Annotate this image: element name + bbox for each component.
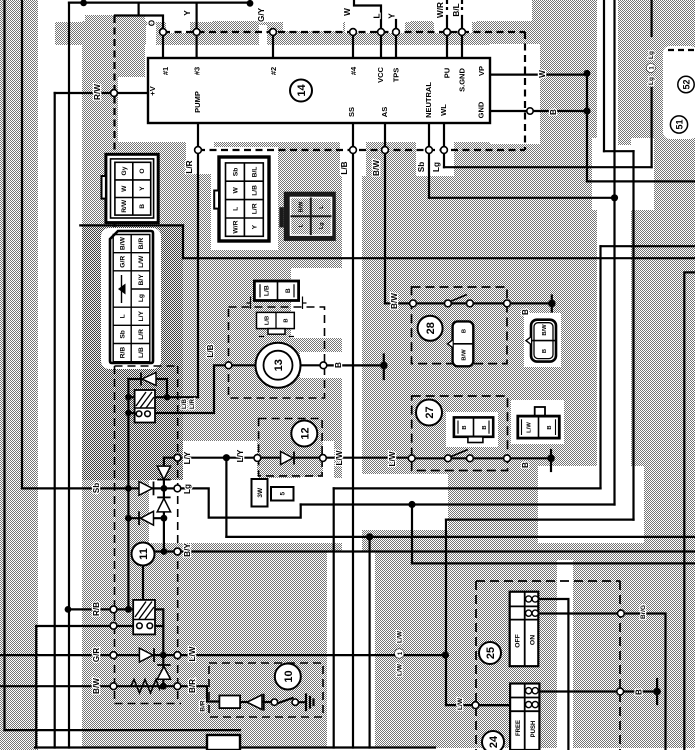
switch 27 circles [408,455,415,462]
svg-text:VP: VP [477,66,486,76]
svg-text:R/B: R/B [92,602,101,616]
svg-text:L: L [233,207,240,211]
wire comp13 B lead [327,364,384,366]
junction G/R row [160,652,167,659]
svg-text:L/W: L/W [388,451,397,466]
wire switch27 row [413,457,507,459]
wire diamond tick 27 [550,450,552,471]
svg-text:L/W: L/W [397,630,404,643]
wire switch28 B lead [507,302,552,304]
node B end comp13 [380,362,388,370]
wire dashed stub near 52 [668,49,695,51]
ECU box 14 [148,58,490,123]
junction Sb row center [161,485,168,492]
svg-text:Lg: Lg [648,77,655,85]
wire left vertical 2 [21,0,23,488]
labels: 4cell faint [299,201,326,229]
svg-text:O: O [148,19,157,26]
wire y518 diode row [128,517,164,519]
white diode cluster zone [149,441,259,543]
svg-text:14: 14 [296,84,308,97]
svg-text:B/W: B/W [92,678,101,694]
switch 28 arm [449,295,467,303]
junction top bus left [80,0,87,6]
balloon 52 [678,76,694,92]
white right of box 14 [490,44,540,144]
wire x412 vertical [411,505,413,564]
svg-text:L/W: L/W [457,697,464,710]
wire GND B horizontal [490,110,587,112]
svg-text:Sb: Sb [417,162,426,172]
svg-text:L/B: L/B [138,347,145,358]
wire y537 horizontal to right edge [226,536,695,538]
resistor box comp10 [219,696,240,709]
svg-text:#1: #1 [161,67,170,75]
svg-text:R/W: R/W [93,84,102,100]
wire Sb feed horizontal [22,487,164,489]
wire G/R row [0,654,174,656]
connector G (inside 27) [454,417,493,442]
svg-text:OFF: OFF [515,634,522,648]
wire Lg riser to label [650,88,652,167]
comp10 contact circles [271,699,277,705]
wire diamond tick 28 [551,296,553,312]
wire dashed R/W vertical x114.5 [113,16,115,227]
svg-text:TPS: TPS [392,68,401,83]
svg-text:B/W: B/W [542,324,548,336]
junction diode row left [125,515,132,522]
wire R/B row [68,608,134,610]
svg-text:12: 12 [299,427,311,439]
wire y519 horizontal [446,518,634,520]
wire relay1 row y397 [128,396,167,398]
svg-text:Lg: Lg [183,484,192,494]
wire pin stub #3 riser [196,3,198,58]
wire relay2 right link [155,609,163,686]
wire jog y151 [604,150,634,152]
svg-text:B: B [462,425,468,429]
white right channel [597,0,631,525]
wire L/R into relay [167,396,198,398]
svg-text:NEUTRAL: NEUTRAL [424,82,433,118]
svg-text:L/W: L/W [188,646,197,661]
labels: balloon numbers [138,79,691,748]
svg-text:L/Y: L/Y [183,451,192,464]
svg-text:L: L [120,314,127,318]
wire VP W horizontal [490,73,587,75]
switch 28 circles [410,300,417,307]
white box 51/52 [663,46,695,139]
junction Lg net x412 [408,501,415,508]
terminal circle B on GND wire [527,108,533,114]
wire B diamond tick [383,355,385,380]
wire comp13 internal [232,364,320,366]
resistor zigzag B/W row [131,680,161,693]
balloon 27 [416,400,442,426]
svg-text:#4: #4 [349,66,358,75]
balloon 24 [482,731,504,750]
component 11 dashed box [115,366,182,704]
svg-text:L/B: L/B [340,161,349,174]
balloon 14 [290,80,312,102]
wire central diode column [163,458,165,552]
wire right bus x633 [632,151,634,519]
svg-text:PU: PU [443,68,452,78]
svg-text:#3: #3 [193,67,202,75]
wire pin stub #2 [272,32,274,58]
wire harness corner vertical [182,225,184,258]
junction relay1 right [164,394,170,400]
svg-text:L/W: L/W [138,255,145,268]
svg-text:10: 10 [283,670,295,682]
svg-text:Y: Y [251,224,258,229]
svg-text:B/R: B/R [200,700,207,712]
wire harness horizontal upper [80,224,183,226]
buzzer triangle comp10 [247,694,264,711]
svg-text:GND: GND [477,101,486,118]
svg-text:L/B: L/B [206,344,215,357]
connector 6-cell outer [102,154,159,222]
svg-text:5: 5 [280,492,287,496]
labels: connector cells [120,166,554,433]
lamp spec box 3W [252,479,268,507]
white rounded margin around tall connector [101,228,161,369]
svg-text:B: B [284,318,290,322]
wire comp25 ON to Br/G [538,612,617,614]
svg-text:Y: Y [183,10,192,16]
junction top bus right [247,0,254,7]
svg-text:B/Y: B/Y [183,543,192,557]
junction VP W wire [584,70,591,77]
svg-text:Sb: Sb [120,330,127,339]
svg-text:L/W: L/W [397,663,404,676]
wire x333 vertical to bottom [333,488,335,747]
svg-text:B/Y: B/Y [138,274,145,286]
terminal circles on dashed harness top [110,29,624,709]
wire y488 horizontal east [334,487,601,489]
svg-text:Sb: Sb [92,483,101,493]
svg-text:L/B: L/B [181,398,188,408]
relay2 contact circles [137,623,143,629]
svg-text:WL: WL [439,104,448,116]
wire dashed stub above W/R [446,0,448,10]
white margin bottom page edge [38,748,695,750]
diode pair central column [157,466,170,512]
component 28 dashed box [412,287,508,364]
svg-text:+V: +V [148,86,157,95]
diode comp12 [281,452,294,465]
wire B/W row [0,685,174,687]
wire L/Y row comp12 [164,457,412,459]
terminal circles comp12 [254,455,261,462]
wire Lg net horizontal y504 [301,503,615,505]
svg-text:B: B [521,462,530,468]
svg-text:PUSH: PUSH [531,721,537,738]
svg-text:#2: #2 [269,67,278,75]
wire L/Y drop x226 [225,458,227,537]
junction B/W row [160,683,167,690]
svg-text:W: W [121,185,128,192]
white pocket around B-wire [300,352,342,378]
wire long mid horizontal y258 [183,257,695,259]
wire dashed harness y150 [198,149,525,151]
svg-text:L/B: L/B [264,285,271,296]
wire PUMP L/R vertical [197,123,199,397]
white channel comp25 wire [557,560,573,750]
svg-text:L/R: L/R [138,329,145,340]
lamp spec box 5 [271,487,294,501]
svg-text:B: B [521,309,530,315]
svg-text:L/R: L/R [251,203,258,214]
svg-text:W: W [233,187,240,194]
balloon 25 [479,642,501,664]
junction Sb row left bus [125,485,132,492]
svg-text:B: B [547,425,553,429]
wire bottom collector y747 [35,746,435,748]
balloon 28 [418,316,443,341]
terminal circles on dashed harness y150 [195,147,202,154]
balloon 12 [291,421,317,447]
diode D3 on y518 row pointing left [139,511,154,525]
svg-text:B: B [334,362,343,368]
svg-text:R/B: R/B [120,347,127,359]
wire pin stub #4 [352,32,354,58]
wire B/W to switch 28 [385,302,412,304]
relay 1 coil box [135,390,155,423]
wire stub horizontal y246 [601,245,695,247]
diode D2 on Sb row [139,482,154,496]
svg-text:B: B [462,329,468,333]
svg-text:B: B [139,204,146,209]
wire Lg short link [164,487,174,489]
svg-text:27: 27 [424,406,436,418]
terminal circles comp11 right edge [174,454,181,461]
wire ground bars comp10 [306,695,314,711]
wire NEUTRAL Sb vertical [428,123,430,198]
wire right bus x614 page top to Lg line [613,0,615,505]
svg-text:Gy: Gy [121,166,128,175]
labels: ECU pin names [148,66,486,118]
white L/B wire channel [342,152,362,552]
svg-text:3W: 3W [257,487,264,498]
white around box 14 [118,44,538,142]
wire y563 horizontal to right edge [412,562,695,564]
wire comp24 B row [539,690,657,692]
svg-text:G/R: G/R [92,648,101,663]
diode D4 on G/R row [139,648,154,662]
svg-text:B/W: B/W [462,349,468,361]
svg-text:B/W: B/W [372,160,381,176]
svg-text:B/R: B/R [188,679,197,693]
white channel left [38,0,82,750]
wire AS B/W vertical [384,123,386,303]
junction GND B wire [583,107,590,114]
component 13 dashed box [229,307,325,398]
wire pin stub S.GND [461,16,463,58]
white pockets on dashed y150 line [186,142,214,174]
svg-text:R/W: R/W [121,199,128,213]
connector 4-cell black block [279,192,335,241]
svg-text:Y: Y [388,13,397,19]
comp24/25 edge circles [618,610,625,617]
relay 2 coil box [133,600,155,635]
wire R/W drop vertical [54,93,56,748]
dark texture block around tall connector [82,226,183,480]
component 10 dashed box [209,663,323,717]
balloon 10 [275,664,301,690]
wire corner right edge x684 [684,272,695,750]
wire WL Lg vertical [443,123,445,167]
wire pin stub TPS [395,20,397,58]
wire comp10 internals [240,701,305,703]
node B end comp24 [653,688,661,696]
svg-text:W/R: W/R [436,2,445,18]
svg-text:11: 11 [138,548,150,560]
wire x369 vertical to bottom [369,537,371,748]
white right corners zone [592,138,654,210]
texture block top-left re-add [85,15,145,77]
white label pockets on top dashed run [146,21,212,46]
svg-text:VCC: VCC [376,67,385,83]
terminal circles comp13 [225,362,232,369]
diode D5 vertical between rows [157,665,170,679]
junction relay1 left top [125,394,131,400]
texture comp12 interior [257,417,323,477]
white channel bottom-mid verticals [327,552,375,750]
wire dashed stub above B/L [461,0,463,10]
wire VP B tick [586,103,588,119]
wire W/B junction vertical [586,73,588,181]
svg-text:28: 28 [425,322,437,334]
labels: wire color codes [92,2,655,712]
wire relay2 contact row horizontal [36,625,163,627]
wire Lg horizontal [444,166,652,168]
wire W pin jog from page top [354,0,381,58]
svg-text:ON: ON [530,635,537,645]
connector H (right of 27) [518,407,560,438]
svg-text:G/Y: G/Y [257,7,266,22]
wire comp11 left bus [127,379,129,609]
bottom partial box [207,735,240,750]
svg-text:W: W [538,70,547,78]
white margins around 28/27 connectors [524,313,561,367]
connector E rounded (inside 28) [448,321,474,366]
svg-text:B: B [549,109,558,115]
svg-text:L/W: L/W [335,450,344,465]
svg-text:B/R: B/R [138,238,145,250]
switch table 24 [510,684,539,750]
wire switch10 arm [277,698,293,704]
svg-text:Lg: Lg [138,294,145,302]
wire B/Y long horizontal [154,550,695,552]
wire x568 comp25 drop [538,599,568,750]
component 24/25 dashed box [476,581,620,750]
white top margin [38,0,532,21]
relay1 contact circles [136,411,142,417]
connector tall 13-pin [110,231,153,363]
svg-text:FREE: FREE [516,720,522,736]
wire SS L/B long vertical [352,123,354,748]
svg-text:O: O [139,168,146,173]
wire left page-edge vertical [3,0,5,730]
svg-text:L/Y: L/Y [138,311,145,322]
junction L/W net comp24 [442,652,449,659]
labels: switch position tables [515,634,538,737]
node B end switch27 [547,455,555,463]
wire B/R lead into comp10 [181,686,219,701]
wire dashed corner x525 [524,32,526,150]
svg-text:SS: SS [347,107,356,117]
wire right bus from page top x604 [603,0,605,151]
svg-text:Sb: Sb [233,168,240,177]
wire pin stub PU [446,16,448,58]
svg-text:PUMP: PUMP [193,91,202,113]
svg-text:Lg: Lg [432,162,441,172]
junction diode row center [161,515,168,522]
junction Sb bus [611,194,618,201]
svg-text:25: 25 [485,647,497,659]
switch 27 arm [450,450,468,458]
switch table 25 [510,592,539,667]
svg-text:B/W: B/W [120,236,127,250]
svg-text:AS: AS [380,107,389,117]
component 13 sensor double circle [256,343,301,388]
wire top jog to O connector [115,3,163,58]
wire stub vertical x600 [599,246,601,488]
wire to comp24 L/W circle [446,704,510,706]
mating marks comp13 connectors [247,297,307,310]
svg-text:B: B [542,349,548,353]
svg-text:B/W: B/W [299,201,305,213]
svg-text:L/B: L/B [251,185,258,196]
terminal circles comp11 left edge [110,606,117,613]
svg-text:L/R: L/R [185,160,194,173]
svg-text:L/W: L/W [527,422,533,433]
svg-text:24: 24 [488,735,500,748]
wire Sb horizontal to bus [429,197,615,199]
svg-text:L/B: L/B [265,316,271,325]
wire B diamond tick comp24 [656,679,658,704]
connector pair above comp13 upper [254,281,298,301]
svg-text:52: 52 [681,79,691,89]
component 27 dashed box [412,396,508,471]
svg-text:S.GND: S.GND [458,68,467,92]
junction y537 net [366,533,373,540]
balloon 11 [132,543,155,566]
wire Lg net jog [177,488,300,517]
wire left vertical 3 [68,3,70,748]
connector 8-pin outer [214,157,269,241]
wire main dashed harness top y32 [163,31,525,33]
svg-text:Lg: Lg [648,51,655,59]
texture band along top dashed wire [55,22,490,45]
svg-text:Lg: Lg [319,222,325,229]
wire comp24 L/W entry [479,704,510,706]
wire switch28 row [413,302,507,304]
svg-text:B: B [635,689,644,695]
connector F rounded (right of 28) [526,320,556,362]
svg-text:L/R: L/R [189,398,196,408]
wire R/W horizontal [55,92,148,94]
wire relay1 contact row y413 to comp13 [128,365,225,413]
component 12 dashed box [259,419,323,476]
terminal circle R/W [111,90,118,97]
wire left vertical to relay contact row [35,626,37,748]
wire Lg above label to page top [650,0,652,36]
svg-text:Br/G: Br/G [640,605,647,619]
svg-text:L: L [373,13,382,18]
wire x446 vertical [445,520,447,706]
